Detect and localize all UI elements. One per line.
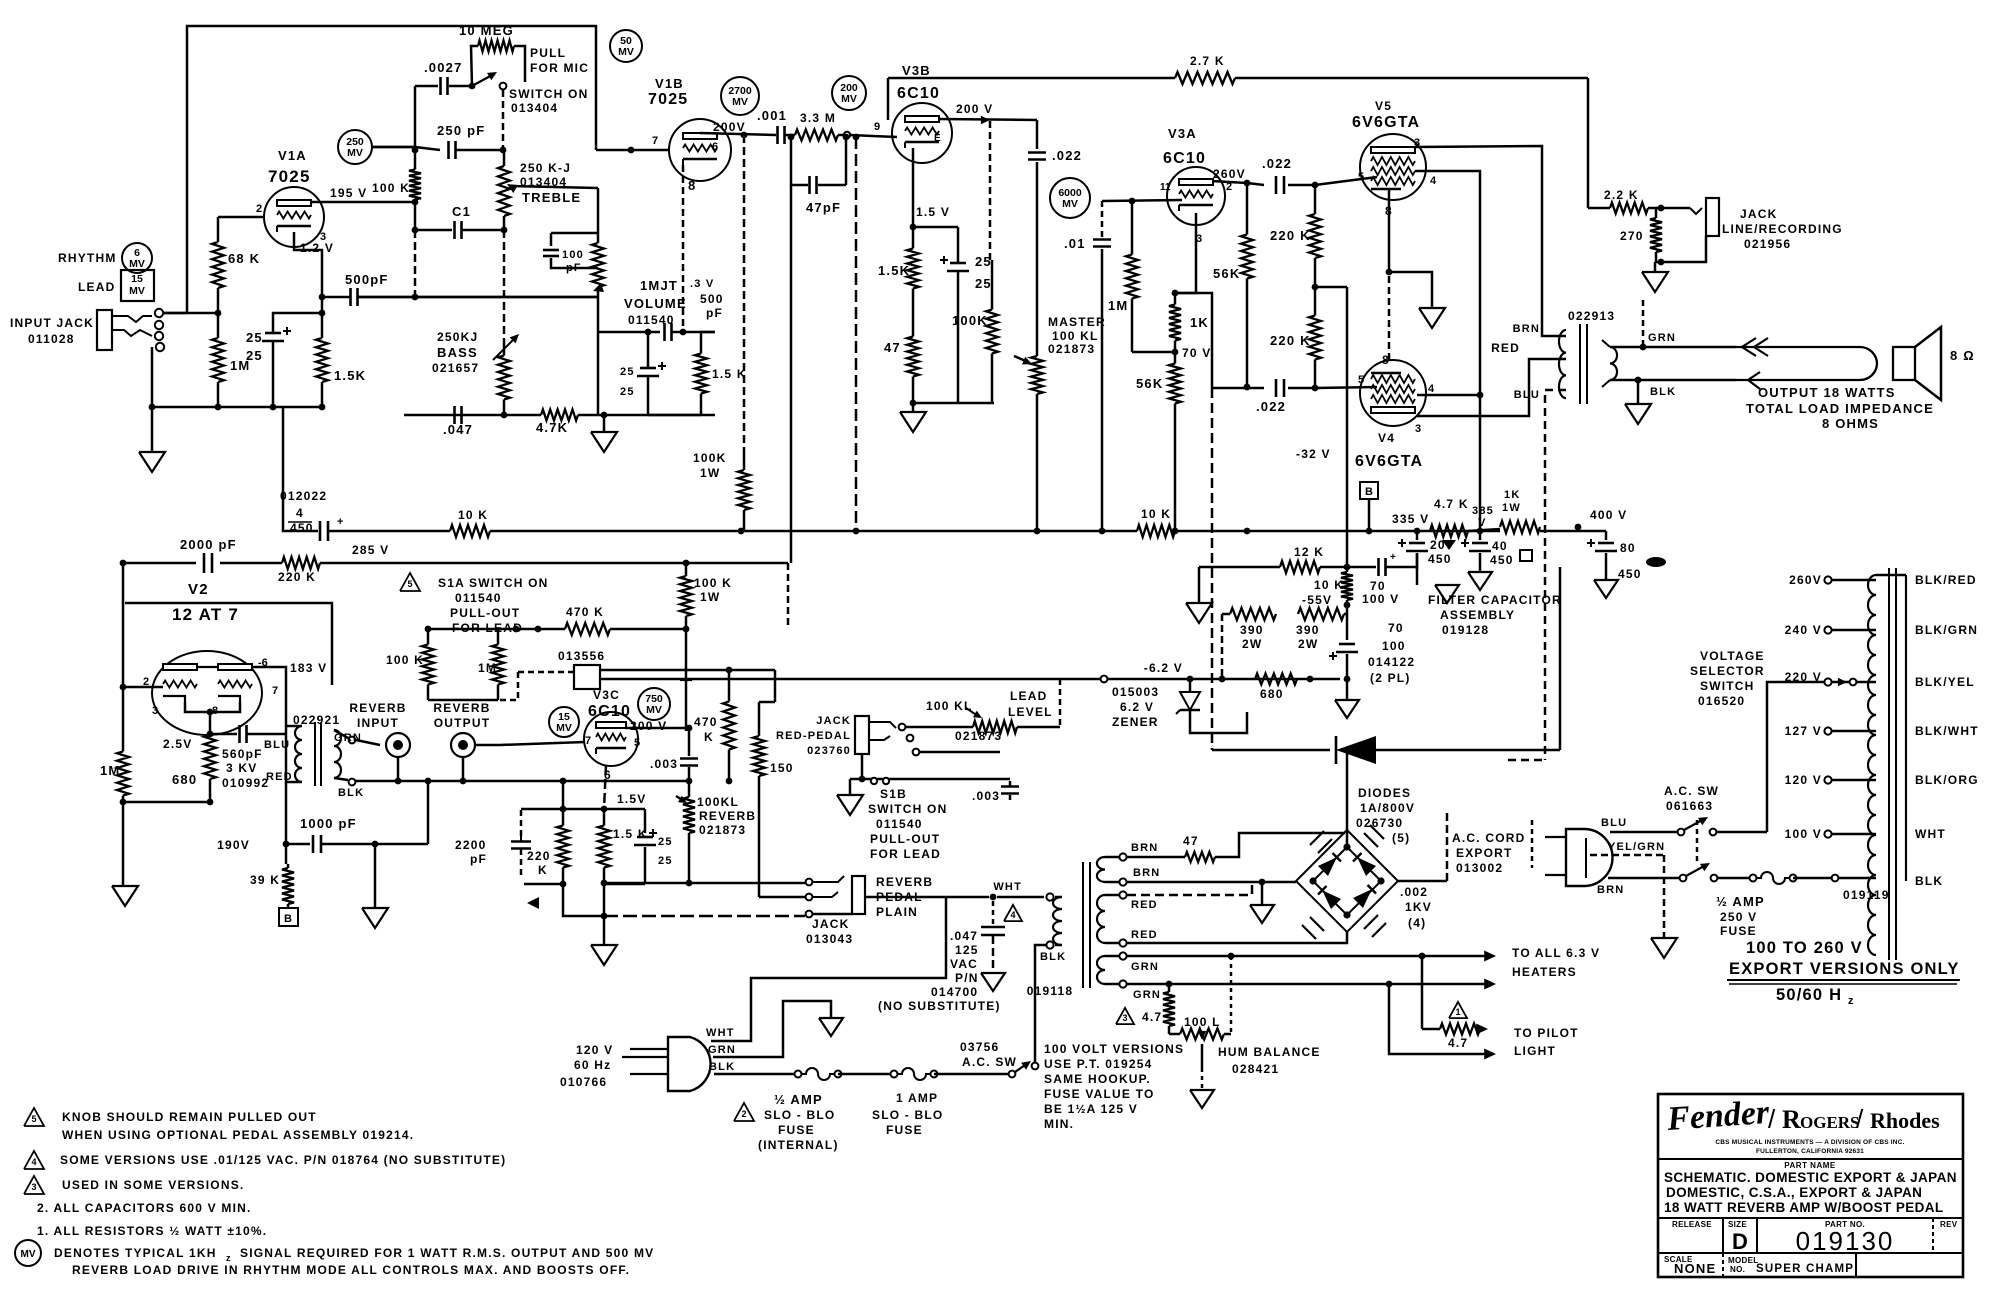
- treble pot 250K-J: [503, 152, 506, 166]
- svg-text:FUSE VALUE TO: FUSE VALUE TO: [1044, 1087, 1155, 1101]
- node input jack tip row: [160, 312, 218, 315]
- svg-text:BLK: BLK: [1040, 951, 1066, 963]
- svg-text:WHEN USING OPTIONAL PEDAL: WHEN USING OPTIONAL PEDAL ASSEMBLY 01921…: [62, 1128, 414, 1142]
- wire reverb ground bus: [355, 780, 690, 783]
- resistor 1K: [1174, 293, 1177, 305]
- svg-text:OUTPUT 18 WATTS: OUTPUT 18 WATTS: [1758, 385, 1896, 400]
- svg-text:2: 2: [256, 203, 262, 215]
- switch S1B contacts: [869, 722, 896, 728]
- capacitor 25/25 V1B: [640, 367, 656, 370]
- svg-text:70 V: 70 V: [1182, 346, 1212, 360]
- svg-text:013556: 013556: [558, 649, 605, 663]
- svg-text:2W: 2W: [1298, 637, 1318, 651]
- diode bias rectifier: [1211, 388, 1214, 750]
- wire bridge right to export: [1398, 880, 1447, 883]
- resistor 4.7K: [541, 410, 578, 421]
- svg-text:FUSE: FUSE: [778, 1123, 815, 1137]
- svg-text:1W: 1W: [700, 590, 720, 604]
- svg-text:KNOB SHOULD REMAIN PULLED: KNOB SHOULD REMAIN PULLED OUT: [62, 1110, 317, 1124]
- svg-text:PULL: PULL: [530, 46, 566, 60]
- wire V3A plate: [1212, 181, 1247, 183]
- svg-text:2000 pF: 2000 pF: [180, 537, 237, 552]
- capacitor .022 lower to V4: [1212, 387, 1264, 390]
- wire cathode cluster ground: [603, 884, 606, 916]
- svg-text:2. ALL CAPACITORS 600 V: 2. ALL CAPACITORS 600 V MIN.: [37, 1201, 252, 1215]
- svg-text:100 V: 100 V: [1362, 592, 1399, 606]
- svg-text:200 V: 200 V: [956, 102, 993, 116]
- svg-text:FILTER CAPACITOR: FILTER CAPACITOR: [1428, 593, 1562, 607]
- wire V4 screen: [1417, 394, 1480, 397]
- svg-text:BLK/ORG: BLK/ORG: [1915, 773, 1979, 787]
- svg-text:FOR LEAD: FOR LEAD: [870, 847, 941, 861]
- svg-text:25: 25: [246, 348, 263, 363]
- svg-text:WHT: WHT: [993, 881, 1022, 893]
- AC plug 010766: [668, 1037, 711, 1091]
- svg-text:.003: .003: [650, 757, 678, 771]
- svg-text:12 AT 7: 12 AT 7: [172, 605, 239, 624]
- ground 20/450: [1435, 585, 1459, 603]
- svg-text:285 V: 285 V: [352, 543, 389, 557]
- capacitor 25/25 V3C: [644, 809, 647, 833]
- resistor 4.7 heater: [1168, 984, 1171, 992]
- svg-text:470 K: 470 K: [566, 605, 604, 619]
- svg-text:4: 4: [1428, 383, 1435, 395]
- svg-text:2.2 K: 2.2 K: [1604, 188, 1639, 202]
- capacitor .003 S1B: [1001, 785, 1019, 788]
- resistor 100K V3B: [991, 260, 994, 310]
- resistor 1M V2 grid return: [122, 745, 125, 752]
- svg-text:D: D: [1732, 1229, 1749, 1254]
- svg-text:R: R: [1782, 1105, 1801, 1134]
- svg-text:019130: 019130: [1796, 1226, 1895, 1256]
- wire vertical 100K node: [414, 86, 417, 147]
- fuse 1 amp: [891, 1071, 898, 1078]
- svg-text:240 V: 240 V: [1785, 623, 1822, 637]
- svg-text:2200: 2200: [455, 838, 487, 852]
- reverb pot 100KL 021873: [688, 790, 691, 797]
- svg-text:z: z: [1848, 995, 1855, 1007]
- wire 1K node right: [1175, 293, 1212, 388]
- PT core: [1082, 862, 1084, 988]
- svg-text:BLK: BLK: [338, 787, 364, 799]
- svg-text:100 TO 260 V: 100 TO 260 V: [1746, 939, 1863, 957]
- wire V3A cathode to 1K: [1175, 213, 1196, 293]
- svg-text:BASS: BASS: [437, 345, 478, 360]
- svg-text:5: 5: [31, 1114, 36, 1124]
- resistor 2.2K line out: [1588, 207, 1610, 210]
- svg-text:3: 3: [31, 1182, 36, 1192]
- svg-text:8 Ω: 8 Ω: [1950, 348, 1975, 363]
- svg-text:195 V: 195 V: [330, 186, 367, 200]
- svg-text:V1A: V1A: [278, 148, 307, 163]
- AC switch domestic: [1009, 1071, 1016, 1078]
- top bus 2.7K: [887, 78, 890, 120]
- wire BLU export switch: [1610, 831, 1681, 834]
- svg-text:100 L: 100 L: [1184, 1015, 1221, 1029]
- svg-text:2.5V: 2.5V: [163, 737, 193, 751]
- svg-text:25: 25: [975, 254, 992, 269]
- svg-text:450: 450: [1490, 553, 1514, 567]
- wire V4 cathode up: [1388, 272, 1391, 360]
- wires lead level connect: [890, 778, 1010, 781]
- ground V5 cathode: [1419, 308, 1445, 328]
- note MV: [15, 1240, 41, 1266]
- svg-text:MV: MV: [1062, 198, 1078, 210]
- svg-text:25: 25: [658, 836, 673, 848]
- resistor 220K reverb: [282, 557, 320, 569]
- svg-text:400 V: 400 V: [1590, 508, 1627, 522]
- svg-text:BE 1½A 125 V: BE 1½A 125 V: [1044, 1102, 1138, 1116]
- svg-text:MASTER: MASTER: [1048, 315, 1106, 329]
- svg-text:JACK: JACK: [1740, 207, 1777, 221]
- svg-text:ASSEMBLY: ASSEMBLY: [1440, 608, 1515, 622]
- capacitor 80/450 filter: [1605, 531, 1608, 540]
- svg-text:DOMESTIC, C.S.A., EXPORT & JAP: DOMESTIC, C.S.A., EXPORT & JAPAN: [1666, 1185, 1922, 1200]
- svg-text:JACK: JACK: [816, 715, 851, 727]
- svg-text:BLK: BLK: [1915, 874, 1943, 888]
- svg-text:3: 3: [1122, 1013, 1127, 1023]
- svg-text:CBS MUSICAL INSTRUMENTS — A DI: CBS MUSICAL INSTRUMENTS — A DIVISION OF …: [1715, 1139, 1904, 1146]
- svg-text:4: 4: [1430, 175, 1437, 187]
- svg-text:FUSE: FUSE: [1720, 924, 1757, 938]
- svg-text:USE P.T. 019254: USE P.T. 019254: [1044, 1057, 1153, 1071]
- zener 015003 6.2V: [1189, 679, 1192, 692]
- svg-text:1.5K: 1.5K: [878, 263, 910, 278]
- capacitor C1: [415, 229, 452, 232]
- svg-text:.003: .003: [972, 789, 1000, 803]
- svg-text:260V: 260V: [1789, 573, 1822, 587]
- wire top feedback bus: [187, 26, 596, 313]
- svg-text:220 K: 220 K: [1270, 228, 1311, 243]
- svg-text:6V6GTA: 6V6GTA: [1355, 453, 1423, 470]
- svg-text:560pF: 560pF: [222, 747, 263, 761]
- svg-text:100K: 100K: [952, 313, 988, 328]
- capacitor 40/450 filter: [1479, 531, 1482, 540]
- resistor 470K V3C: [728, 670, 731, 702]
- svg-text:028421: 028421: [1232, 1062, 1279, 1076]
- svg-text:47: 47: [884, 340, 901, 355]
- resistor 220K V3C: [562, 809, 565, 826]
- wire V1A grid: [218, 216, 264, 219]
- wire 100K1W tap: [743, 135, 746, 449]
- svg-text:BLU: BLU: [1601, 817, 1627, 829]
- wire YEL/GRN export: [1590, 854, 1664, 857]
- svg-text:LINE/RECORDING: LINE/RECORDING: [1722, 222, 1843, 236]
- wire bridge dc out: [1346, 750, 1349, 847]
- svg-text:FUSE: FUSE: [886, 1123, 923, 1137]
- title row release size part no: [1658, 1217, 1963, 1219]
- svg-text:RHYTHM: RHYTHM: [58, 251, 117, 265]
- wire pedal to .047 line: [865, 896, 946, 899]
- svg-text:P/N: P/N: [955, 971, 979, 985]
- boxed 15 MV lead: [121, 270, 154, 301]
- wire between fuses: [838, 1073, 894, 1076]
- svg-text:03756: 03756: [960, 1040, 999, 1054]
- wire .01 down: [1101, 249, 1104, 531]
- ground OT secondary: [1637, 380, 1640, 404]
- ground GRN: [819, 1018, 843, 1036]
- svg-text:1W: 1W: [1502, 502, 1521, 514]
- svg-text:3 KV: 3 KV: [226, 761, 257, 775]
- wire reverb input jack: [356, 740, 380, 745]
- svg-text:GRN: GRN: [1133, 989, 1161, 1001]
- svg-text:V3B: V3B: [902, 63, 931, 78]
- svg-text:100 VOLT VERSIONS: 100 VOLT VERSIONS: [1044, 1042, 1184, 1056]
- svg-text:S1B: S1B: [880, 787, 907, 801]
- wire V5 cathode to ground: [1389, 189, 1432, 308]
- svg-text:z: z: [226, 1253, 231, 1263]
- svg-text:Fender: Fender: [1665, 1094, 1771, 1138]
- capacitor 500pF: [322, 296, 350, 299]
- svg-text:25: 25: [246, 330, 263, 345]
- svg-text:SOME VERSIONS USE .01/125 V: SOME VERSIONS USE .01/125 VAC. P/N 01876…: [60, 1153, 506, 1167]
- svg-text:A.C. SW: A.C. SW: [962, 1055, 1017, 1069]
- svg-text:011540: 011540: [876, 817, 923, 831]
- wire pilot light line: [1389, 984, 1490, 1054]
- svg-text:Rhodes: Rhodes: [1870, 1108, 1940, 1133]
- ground 12K: [1198, 567, 1201, 603]
- svg-text:021873: 021873: [955, 729, 1002, 743]
- svg-text:25: 25: [975, 276, 992, 291]
- wire V3C grid: [500, 742, 585, 745]
- svg-text:MV: MV: [347, 147, 363, 159]
- svg-text:MIN.: MIN.: [1044, 1117, 1074, 1131]
- svg-text:450: 450: [290, 521, 314, 535]
- svg-text:5: 5: [634, 737, 640, 749]
- wire line out dashed: [1642, 300, 1645, 347]
- svg-text:250 K-J: 250 K-J: [520, 161, 571, 175]
- resistor 1M lead: [497, 629, 500, 645]
- svg-text:B: B: [284, 913, 292, 925]
- export fuse: [1750, 875, 1757, 882]
- svg-text:023760: 023760: [807, 745, 851, 757]
- ground V3B cathode: [912, 403, 915, 412]
- svg-text:V2: V2: [188, 581, 209, 598]
- wire V5 screen: [1415, 171, 1480, 531]
- resistor 10K bus1: [450, 525, 490, 537]
- wire switch to treble: [502, 90, 505, 150]
- resistor 100K 1W plate feed: [743, 449, 746, 470]
- wire V1B cathode down: [682, 165, 685, 332]
- svg-text:120 V: 120 V: [1785, 773, 1822, 787]
- capacitor 70/100 014122: [1339, 643, 1355, 646]
- svg-text:RELEASE: RELEASE: [1672, 1220, 1712, 1229]
- svg-text:RED: RED: [1131, 899, 1158, 911]
- resistor 1.5K V3C cathode: [603, 809, 606, 826]
- svg-text:MV: MV: [556, 722, 572, 734]
- svg-text:500pF: 500pF: [345, 272, 389, 287]
- svg-text:220 K: 220 K: [278, 570, 316, 584]
- wire V3C cathode down: [604, 765, 606, 809]
- ground 80/450: [1605, 553, 1608, 580]
- svg-text:.047: .047: [950, 929, 978, 943]
- volume pot 1MJT 011540: [551, 232, 598, 235]
- mv circle 250: [338, 130, 372, 164]
- svg-text:1M: 1M: [100, 763, 120, 778]
- svg-text:5: 5: [407, 579, 412, 589]
- tube V3B: [892, 103, 952, 163]
- svg-text:(5): (5): [1392, 831, 1410, 845]
- svg-text:LEVEL: LEVEL: [1008, 705, 1053, 719]
- svg-text:K: K: [704, 730, 714, 744]
- svg-text:1K: 1K: [1504, 489, 1520, 501]
- svg-text:REVERB: REVERB: [433, 701, 490, 715]
- svg-text:.022: .022: [1262, 156, 1292, 171]
- wire V1A plate 195V: [311, 201, 415, 204]
- svg-text:SWITCH: SWITCH: [1700, 679, 1755, 693]
- svg-text:012022: 012022: [280, 489, 327, 503]
- svg-text:SLO - BLO: SLO - BLO: [872, 1108, 943, 1122]
- svg-text:OGERS: OGERS: [1800, 1113, 1860, 1132]
- svg-text:V1B: V1B: [655, 76, 684, 91]
- export transformer winding: [1868, 575, 1876, 955]
- wire V2 grids: [123, 686, 163, 689]
- capacitor .022 upper to V5: [1247, 183, 1264, 185]
- svg-text:4: 4: [1010, 910, 1015, 920]
- wire dashed V3B tap: [989, 121, 992, 260]
- svg-text:C1: C1: [452, 204, 471, 219]
- svg-text:100K: 100K: [693, 451, 727, 465]
- svg-text:70: 70: [1388, 621, 1404, 635]
- svg-text:.047: .047: [443, 422, 473, 437]
- svg-text:1M: 1M: [1108, 298, 1128, 313]
- svg-text:VAC: VAC: [950, 957, 978, 971]
- svg-text:25: 25: [620, 386, 635, 398]
- svg-text:SWITCH ON: SWITCH ON: [868, 802, 947, 816]
- svg-text:MODEL: MODEL: [1728, 1256, 1758, 1265]
- resistor 1.5K V3B cathode: [912, 227, 915, 249]
- svg-text:S1A SWITCH ON: S1A SWITCH ON: [438, 576, 549, 590]
- svg-text:1.5 K: 1.5 K: [613, 827, 648, 841]
- wire GRN mains: [713, 1001, 831, 1057]
- resistor 390 2W first: [1222, 613, 1230, 616]
- fuse half amp internal: [795, 1071, 802, 1078]
- wire grid V1B: [596, 149, 669, 152]
- wire reverb pot to pedal jack: [688, 840, 691, 883]
- svg-text:RED: RED: [266, 771, 293, 783]
- svg-text:SCHEMATIC. DOMESTIC EXPORT & J: SCHEMATIC. DOMESTIC EXPORT & JAPAN: [1664, 1170, 1957, 1185]
- svg-text:4.7K: 4.7K: [536, 420, 568, 435]
- svg-text:4: 4: [31, 1157, 36, 1167]
- resistor 12K bias: [1199, 566, 1280, 569]
- capacitor .0027: [415, 85, 438, 88]
- svg-text:10 K: 10 K: [1314, 578, 1344, 592]
- svg-text:+: +: [337, 516, 343, 528]
- svg-text:REVERB: REVERB: [699, 809, 756, 823]
- svg-text:47pF: 47pF: [806, 200, 841, 215]
- svg-text:MV: MV: [646, 704, 662, 716]
- capacitor 70/100V: [1347, 566, 1376, 569]
- svg-text:011540: 011540: [628, 313, 675, 327]
- svg-text:PULL-OUT: PULL-OUT: [870, 832, 940, 846]
- svg-text:-6.2 V: -6.2 V: [1144, 661, 1183, 675]
- capacitor .047: [453, 406, 456, 424]
- svg-text:.022: .022: [1256, 399, 1286, 414]
- capacitor 250pF: [415, 147, 440, 150]
- svg-text:56K: 56K: [1136, 376, 1163, 391]
- svg-text:10 MEG: 10 MEG: [459, 23, 514, 38]
- resistor 1M V3A grid: [1131, 201, 1134, 255]
- wire 470K line: [428, 628, 565, 631]
- resistor 100K 1W second: [685, 563, 688, 576]
- ground tone stack: [603, 415, 606, 432]
- svg-text:HEATERS: HEATERS: [1512, 965, 1577, 979]
- tube V3A: [1167, 167, 1225, 225]
- svg-text:390: 390: [1240, 623, 1264, 637]
- wire cathode bus V3B: [913, 402, 994, 405]
- svg-text:8: 8: [688, 178, 695, 193]
- wire BRN export fuse: [1608, 877, 1683, 880]
- svg-text:1.5V: 1.5V: [617, 792, 647, 806]
- resistor 270: [1655, 208, 1658, 218]
- capacitor .01: [1101, 201, 1104, 238]
- svg-text:013404: 013404: [511, 101, 558, 115]
- tube V3C: [584, 712, 638, 766]
- svg-text:6C10: 6C10: [897, 85, 940, 102]
- svg-text:390: 390: [1296, 623, 1320, 637]
- wire bridge bottom to PT RED: [1127, 932, 1347, 943]
- svg-text:25: 25: [620, 366, 635, 378]
- svg-text:REVERB LOAD DRIVE IN RHYTH: REVERB LOAD DRIVE IN RHYTHM MODE ALL CON…: [72, 1263, 630, 1277]
- svg-text:1K: 1K: [1190, 315, 1209, 330]
- resistor 220K lower: [1314, 287, 1317, 316]
- svg-text:.022: .022: [1052, 148, 1082, 163]
- wire heater line 1: [1127, 955, 1490, 958]
- svg-text:REV: REV: [1940, 1220, 1958, 1229]
- svg-text:1: 1: [1455, 1007, 1460, 1017]
- title block part name divider: [1658, 1158, 1963, 1160]
- tube V5 6V6GTA: [1360, 134, 1426, 200]
- svg-text:25: 25: [658, 855, 673, 867]
- svg-text:7: 7: [652, 135, 658, 147]
- ground hum balance: [1190, 1090, 1214, 1108]
- capacitor .022 coupling: [1028, 151, 1046, 154]
- svg-text:SWITCH ON: SWITCH ON: [509, 87, 588, 101]
- svg-text:BLK: BLK: [1650, 386, 1676, 398]
- bridge diodes: [1318, 857, 1337, 876]
- svg-text:YEL/GRN: YEL/GRN: [1608, 841, 1665, 853]
- svg-text:270: 270: [1620, 229, 1644, 243]
- svg-text:021657: 021657: [432, 361, 479, 375]
- svg-text:GRN: GRN: [1648, 332, 1676, 344]
- svg-text:NO.: NO.: [1730, 1265, 1745, 1274]
- svg-text:V3C: V3C: [593, 688, 620, 702]
- wire V3A grid line: [1102, 200, 1182, 201]
- resistor 39K: [285, 844, 288, 864]
- svg-text:/: /: [1768, 1104, 1776, 1134]
- svg-text:V3A: V3A: [1168, 126, 1197, 141]
- svg-text:MV: MV: [21, 1249, 36, 1260]
- svg-text:USED IN SOME VERSIONS.: USED IN SOME VERSIONS.: [62, 1178, 244, 1192]
- resistor 1K 1W bus: [1500, 521, 1540, 533]
- svg-text:6V6GTA: 6V6GTA: [1352, 114, 1420, 131]
- svg-text:022913: 022913: [1568, 309, 1615, 323]
- capacitor 2000pF: [203, 553, 206, 573]
- svg-text:.0027: .0027: [424, 60, 463, 75]
- svg-text:015003: 015003: [1112, 685, 1159, 699]
- svg-text:BLU: BLU: [264, 739, 290, 751]
- svg-text:8 OHMS: 8 OHMS: [1822, 416, 1879, 431]
- svg-text:GRN: GRN: [708, 1044, 736, 1056]
- svg-text:120 V: 120 V: [576, 1043, 613, 1057]
- svg-text:014122: 014122: [1368, 655, 1415, 669]
- svg-text:GRN: GRN: [1131, 961, 1159, 973]
- ground 40/450: [1479, 553, 1482, 572]
- bridge rectifier diamond: [1313, 847, 1381, 915]
- svg-text:DENOTES TYPICAL 1KH: DENOTES TYPICAL 1KH: [54, 1246, 217, 1260]
- svg-text:WHT: WHT: [1915, 827, 1946, 841]
- mv circle 2700: [721, 77, 759, 115]
